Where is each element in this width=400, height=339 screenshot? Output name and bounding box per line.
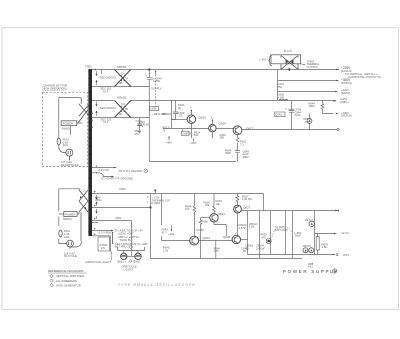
upper-left note underline <box>43 89 65 91</box>
wire Q614 to Q617 <box>212 129 233 139</box>
svg-text:SR602: SR602 <box>117 65 127 69</box>
svg-text:Q614: Q614 <box>219 121 227 125</box>
svg-text:41.7: 41.7 <box>162 230 168 234</box>
zener VR656 <box>305 218 315 227</box>
wire Q613 base <box>172 119 188 121</box>
primary crossing upper <box>77 98 90 123</box>
junction dot right vertical <box>148 68 150 70</box>
wire 6.3V line A <box>92 207 151 209</box>
resistor on Q634 collector <box>204 194 223 214</box>
svg-text:R GRD: R GRD <box>152 201 161 205</box>
svg-text:POWER: POWER <box>65 213 75 217</box>
svg-text:+12V: +12V <box>168 232 175 236</box>
transistor Q627 <box>234 205 242 213</box>
svg-text:500: 500 <box>194 133 199 137</box>
svg-text:ALL SWEEPERS: ALL SWEEPERS <box>56 279 77 283</box>
svg-text:(TO EARTH TK GROUND): (TO EARTH TK GROUND) <box>101 177 133 181</box>
dashed enclosure upper-left <box>42 93 87 167</box>
label +350V row <box>341 78 352 85</box>
wire heater arrow lower <box>92 230 114 232</box>
svg-text:(DCPLD): (DCPLD) <box>138 123 149 127</box>
svg-text:.05: .05 <box>245 246 249 250</box>
lamp B602 <box>135 253 141 259</box>
plug P601 lower <box>59 240 74 249</box>
svg-text:SUPPLY: SUPPLY <box>151 86 162 90</box>
wire to lamps <box>118 221 145 257</box>
svg-text:L605: L605 <box>150 107 156 111</box>
svg-text:Q646: Q646 <box>223 235 231 239</box>
svg-text:27k: 27k <box>185 207 190 211</box>
transistor Q646 <box>232 235 240 243</box>
capacitor C640 on x=149.3 <box>145 75 162 91</box>
dashed link arrow x=155.6 <box>155 70 157 106</box>
svg-text:2x80uF: 2x80uF <box>256 246 265 250</box>
svg-text:1.8k: 1.8k <box>322 245 328 249</box>
arrow +125V row <box>334 100 337 102</box>
legend item 1 <box>50 274 84 278</box>
winding tap arrows bridge2 <box>96 102 98 117</box>
arrow +350V <box>336 80 339 82</box>
lamp B601 <box>121 253 135 259</box>
svg-text:R612: R612 <box>162 112 169 116</box>
wire Q627 collector down <box>237 213 239 235</box>
wire Q634 base <box>201 217 210 219</box>
resistor R636 <box>196 218 208 259</box>
wire vertical x=247 <box>247 211 249 255</box>
svg-text:3AG: 3AG <box>64 235 69 239</box>
svg-text:60 CYCLE: 60 CYCLE <box>64 254 77 258</box>
svg-text:10k: 10k <box>216 202 221 206</box>
wire -12.2V branch <box>315 233 335 235</box>
svg-text:TYPE RM561A OSCILLOSCOPE: TYPE RM561A OSCILLOSCOPE <box>118 283 196 287</box>
wire bridge1 bottom rail <box>92 86 149 88</box>
wire upper-left loop <box>59 98 81 149</box>
label TK601 <box>301 59 320 69</box>
svg-text:4.7k: 4.7k <box>214 249 220 253</box>
wire right vertical x=149.3 <box>148 70 150 162</box>
svg-text:THRU BV: THRU BV <box>120 238 132 242</box>
wire 6.3 line to box <box>92 236 111 255</box>
MRB date <box>308 263 314 269</box>
transistor Q617 <box>233 126 242 135</box>
wire vertical x=270.5 <box>270 211 272 255</box>
svg-text:450V: 450V <box>243 155 249 159</box>
node junction at transformer top <box>94 69 96 71</box>
fuse F601 upper <box>57 138 69 148</box>
wire Q634 emitter <box>214 222 226 236</box>
arrow CRT heater 1 <box>114 167 117 169</box>
winding tap arrows lower <box>96 195 98 219</box>
capacitor C621 <box>135 118 144 136</box>
svg-text:(GRATICULE LIGHT): (GRATICULE LIGHT) <box>85 260 111 264</box>
label graticule lights <box>85 255 112 265</box>
svg-text:R648: R648 <box>289 107 296 111</box>
resistor R643 on x=171.2 <box>172 101 185 129</box>
svg-text:B602: B602 <box>134 259 141 263</box>
svg-text:L-601: L-601 <box>259 57 266 61</box>
svg-text:(TIED WDGS): (TIED WDGS) <box>99 75 116 79</box>
svg-text:+40V: +40V <box>166 140 173 144</box>
svg-text:6.3 V AC: 6.3 V AC <box>99 168 110 172</box>
svg-text:RECEPTACLE: RECEPTACLE <box>61 163 79 167</box>
primary crossing lower <box>79 189 88 242</box>
arrow -8.6V <box>333 254 336 256</box>
arrow +100V out <box>336 113 339 115</box>
label +225V row <box>341 66 381 79</box>
inductor L650 <box>278 93 288 101</box>
thermal box RT601 <box>98 237 110 251</box>
transistor Q613 <box>187 115 196 124</box>
wire Q613 emitter to rail <box>163 124 209 139</box>
svg-text:125W: 125W <box>153 79 160 83</box>
lower top rail <box>92 193 264 195</box>
legend item 3 <box>50 283 81 287</box>
label +100V row <box>341 88 350 95</box>
zener VR646 <box>303 114 312 130</box>
resistor R647 below Q617 <box>236 135 239 148</box>
svg-text:C4: C4 <box>121 72 125 76</box>
thermal cutout TK601 box <box>271 55 301 70</box>
svg-text:41.7: 41.7 <box>103 89 109 93</box>
svg-text:4D: 4D <box>119 112 122 116</box>
label +40V arrow <box>166 136 173 145</box>
svg-text:CHECK: CHECK <box>182 131 192 135</box>
legend item 2 <box>50 279 77 283</box>
svg-text:SW601: SW601 <box>63 217 72 221</box>
boxed label C650 relay <box>148 196 171 206</box>
svg-text:(DCPLD): (DCPLD) <box>341 81 352 85</box>
Q613 top arrow <box>190 107 192 115</box>
primary tap arrows upper <box>90 113 92 129</box>
legend reference diagrams <box>48 269 87 273</box>
svg-text:390K: 390K <box>225 151 231 155</box>
svg-text:SR620: SR620 <box>117 96 127 100</box>
wire 6.3V line B <box>92 220 132 222</box>
boxed label SEC640 <box>275 112 286 117</box>
wire bottom rail of upper section <box>149 161 236 163</box>
capacitor C649 block <box>225 148 249 162</box>
resistor on Q644 collector <box>185 194 196 237</box>
winding tap arrows bridge1 <box>96 71 98 85</box>
wire vertical x=314 <box>314 211 316 255</box>
svg-text:2.5: 2.5 <box>101 246 105 250</box>
svg-text:1.8k: 1.8k <box>249 225 255 229</box>
svg-text:SW601: SW601 <box>62 126 71 130</box>
svg-text:B601 +: B601 + <box>118 259 127 263</box>
capacitor C643 on x=175.9 <box>172 101 185 120</box>
svg-text:-100V: -100V <box>190 141 197 145</box>
transistor Q634 <box>210 214 218 222</box>
Q614 top arrow <box>211 117 213 125</box>
svg-text:GATE GENERATOR: GATE GENERATOR <box>56 283 81 287</box>
svg-text:7A: 7A <box>125 76 128 80</box>
rectifier bridge SR620 <box>115 101 131 118</box>
svg-text:3AG: 3AG <box>63 143 68 147</box>
svg-text:7B: 7B <box>125 107 128 111</box>
switch SW601 box POWER <box>61 121 76 126</box>
label -8.6V <box>336 254 338 256</box>
vertical feed x=277 <box>277 70 279 101</box>
arrow end of rail <box>335 210 338 212</box>
wire lower right top rail left seg <box>263 194 265 211</box>
circled ref CRT <box>144 169 148 173</box>
wire vertical x=259 <box>259 211 261 259</box>
wire 6.3VAC line <box>92 222 98 224</box>
open node at end <box>337 128 339 130</box>
arrow CRT heater 2 <box>112 176 115 178</box>
svg-text:R.LYS: R.LYS <box>284 49 292 53</box>
wire Q644 base <box>162 236 190 241</box>
wire CRT heater line 1 <box>92 167 114 169</box>
junction dot D655 <box>266 239 271 244</box>
wire bridge2 bottom rail <box>92 117 149 119</box>
label +125V row <box>340 97 349 104</box>
note arc to J670 <box>272 225 292 237</box>
bottom rail right block <box>248 254 335 256</box>
boxed label line/DC <box>149 106 158 110</box>
arrow +100V row <box>335 91 338 93</box>
wire vertical x=292.5 <box>292 211 294 259</box>
svg-text:250: 250 <box>278 85 283 89</box>
transistor Q644 <box>190 236 199 245</box>
svg-text:C640: C640 <box>275 113 282 117</box>
wire stub x=101.5 <box>101 70 103 75</box>
wire top rail +225V row <box>92 69 339 71</box>
pin ticks along bar <box>94 191 96 236</box>
svg-text:280: 280 <box>220 136 225 140</box>
svg-text:6.2: 6.2 <box>305 120 309 124</box>
svg-text:(AMPL): (AMPL) <box>340 100 349 104</box>
wire vertical x=285.5 <box>285 211 287 255</box>
rectifier bridge SR602 <box>115 70 131 87</box>
switch box POWER lower <box>59 212 79 217</box>
switch wiring to primary <box>77 122 82 124</box>
svg-text:3.9k: 3.9k <box>296 107 302 111</box>
ref glyph between lamps <box>129 260 131 262</box>
svg-text:REFERENCE DIAGRAMS:: REFERENCE DIAGRAMS: <box>48 269 84 273</box>
transformer T601 winding bar <box>88 69 92 236</box>
wire lower-left rail x=152 <box>150 194 152 259</box>
resistor R627 <box>236 194 252 206</box>
note text block lower <box>113 228 148 248</box>
svg-text:470: 470 <box>262 235 267 239</box>
wire Q644 emitter run <box>199 241 233 259</box>
wire Q646 emitter <box>241 239 248 241</box>
svg-text:3900: 3900 <box>309 104 315 108</box>
svg-text:-12.2V: -12.2V <box>341 231 349 235</box>
title POWER SUPPLY <box>283 269 339 274</box>
label +100V out <box>341 111 352 118</box>
label -100V below <box>190 139 197 146</box>
svg-text:10k: 10k <box>205 203 210 207</box>
svg-text:BE THRU 2: BE THRU 2 <box>115 245 129 249</box>
wire Q617 collector long line <box>242 129 337 131</box>
lower-left loop wire <box>59 189 82 247</box>
svg-text:+ R640: + R640 <box>152 112 161 116</box>
svg-text:Q613: Q613 <box>199 116 207 120</box>
label lights below <box>122 265 137 272</box>
brace L601 <box>259 55 271 66</box>
svg-text:1.87k: 1.87k <box>239 226 246 230</box>
svg-text:VERTICAL AMPLIFIER: VERTICAL AMPLIFIER <box>56 274 84 278</box>
svg-text:(TIED WDGS): (TIED WDGS) <box>99 106 116 110</box>
fuse F601 lower <box>59 229 71 239</box>
resistor R644 on x=322 <box>309 101 334 114</box>
svg-text:+100: +100 <box>278 95 285 99</box>
svg-text:(DCPLD): (DCPLD) <box>341 114 352 118</box>
svg-text:C4: C4 <box>121 102 125 106</box>
svg-text:T601: T601 <box>85 64 92 68</box>
svg-text:VR 6.2: VR 6.2 <box>305 218 314 222</box>
boxed label DC CHECK <box>181 130 191 136</box>
arrow +225V <box>336 69 339 71</box>
svg-text:6.3 V RMS: 6.3 V RMS <box>99 231 112 235</box>
svg-text:4B: 4B <box>119 81 122 85</box>
zener VR675 pair <box>303 244 314 253</box>
tap arrow above rail <box>155 189 157 193</box>
wire Q627 emitter rail <box>241 210 337 212</box>
svg-text:POWER SUPPLY: POWER SUPPLY <box>283 269 339 274</box>
svg-text:CUTOUT: CUTOUT <box>307 65 319 69</box>
junction dot 6.3V <box>149 206 151 208</box>
svg-text:30uF: 30uF <box>295 234 301 238</box>
transistor Q614 <box>209 125 216 132</box>
svg-text:.05: .05 <box>179 114 183 118</box>
svg-text:R636: R636 <box>202 219 209 223</box>
capacitor C640B on x=291 <box>285 101 294 130</box>
svg-text:WDG: WDG <box>95 198 102 202</box>
svg-text:7.5: 7.5 <box>240 142 244 146</box>
svg-text:C650: C650 <box>119 187 126 191</box>
tap tick CRT <box>96 166 98 174</box>
svg-text:TO C.R.T. HEATER: TO C.R.T. HEATER <box>119 169 142 173</box>
svg-text:-8.6V: -8.6V <box>343 253 350 257</box>
resistor R676 <box>316 234 328 255</box>
junction dot on +225 rail <box>288 68 290 70</box>
svg-text:Q627: Q627 <box>243 205 251 209</box>
svg-text:Q634: Q634 <box>218 212 226 216</box>
wire +100V row <box>278 91 336 93</box>
svg-text:(CRT AMP): (CRT AMP) <box>275 228 289 232</box>
wire rail x=161.5 <box>161 194 163 226</box>
svg-text:25V: 25V <box>135 132 140 136</box>
svg-text:LIGHTS: LIGHTS <box>124 267 134 271</box>
svg-text:(BRAV): (BRAV) <box>341 91 350 95</box>
svg-text:1.5k: 1.5k <box>163 248 169 252</box>
svg-text:C661: C661 <box>115 216 122 220</box>
svg-text:Q644: Q644 <box>203 236 211 240</box>
wire CRT heater line 2 <box>92 173 112 177</box>
svg-text:41.7: 41.7 <box>103 120 109 124</box>
wire bridge2 top rail +125V long rail <box>92 100 336 102</box>
arrow -12.2V <box>334 233 337 235</box>
svg-text:1.8k 5W: 1.8k 5W <box>242 197 252 201</box>
svg-text:2x40: 2x40 <box>295 113 301 117</box>
svg-text:POWER: POWER <box>63 122 73 126</box>
svg-text:HORIZONTAL OUTPUT (5): HORIZONTAL OUTPUT (5) <box>348 75 381 79</box>
wire +350V row <box>278 80 337 82</box>
arrow +12V <box>168 226 175 237</box>
plug P601 upper <box>60 149 73 161</box>
svg-text:HIGH OPERATION): HIGH OPERATION) <box>43 86 67 90</box>
bottom rail main <box>151 258 303 260</box>
svg-text:VR675: VR675 <box>303 244 312 248</box>
